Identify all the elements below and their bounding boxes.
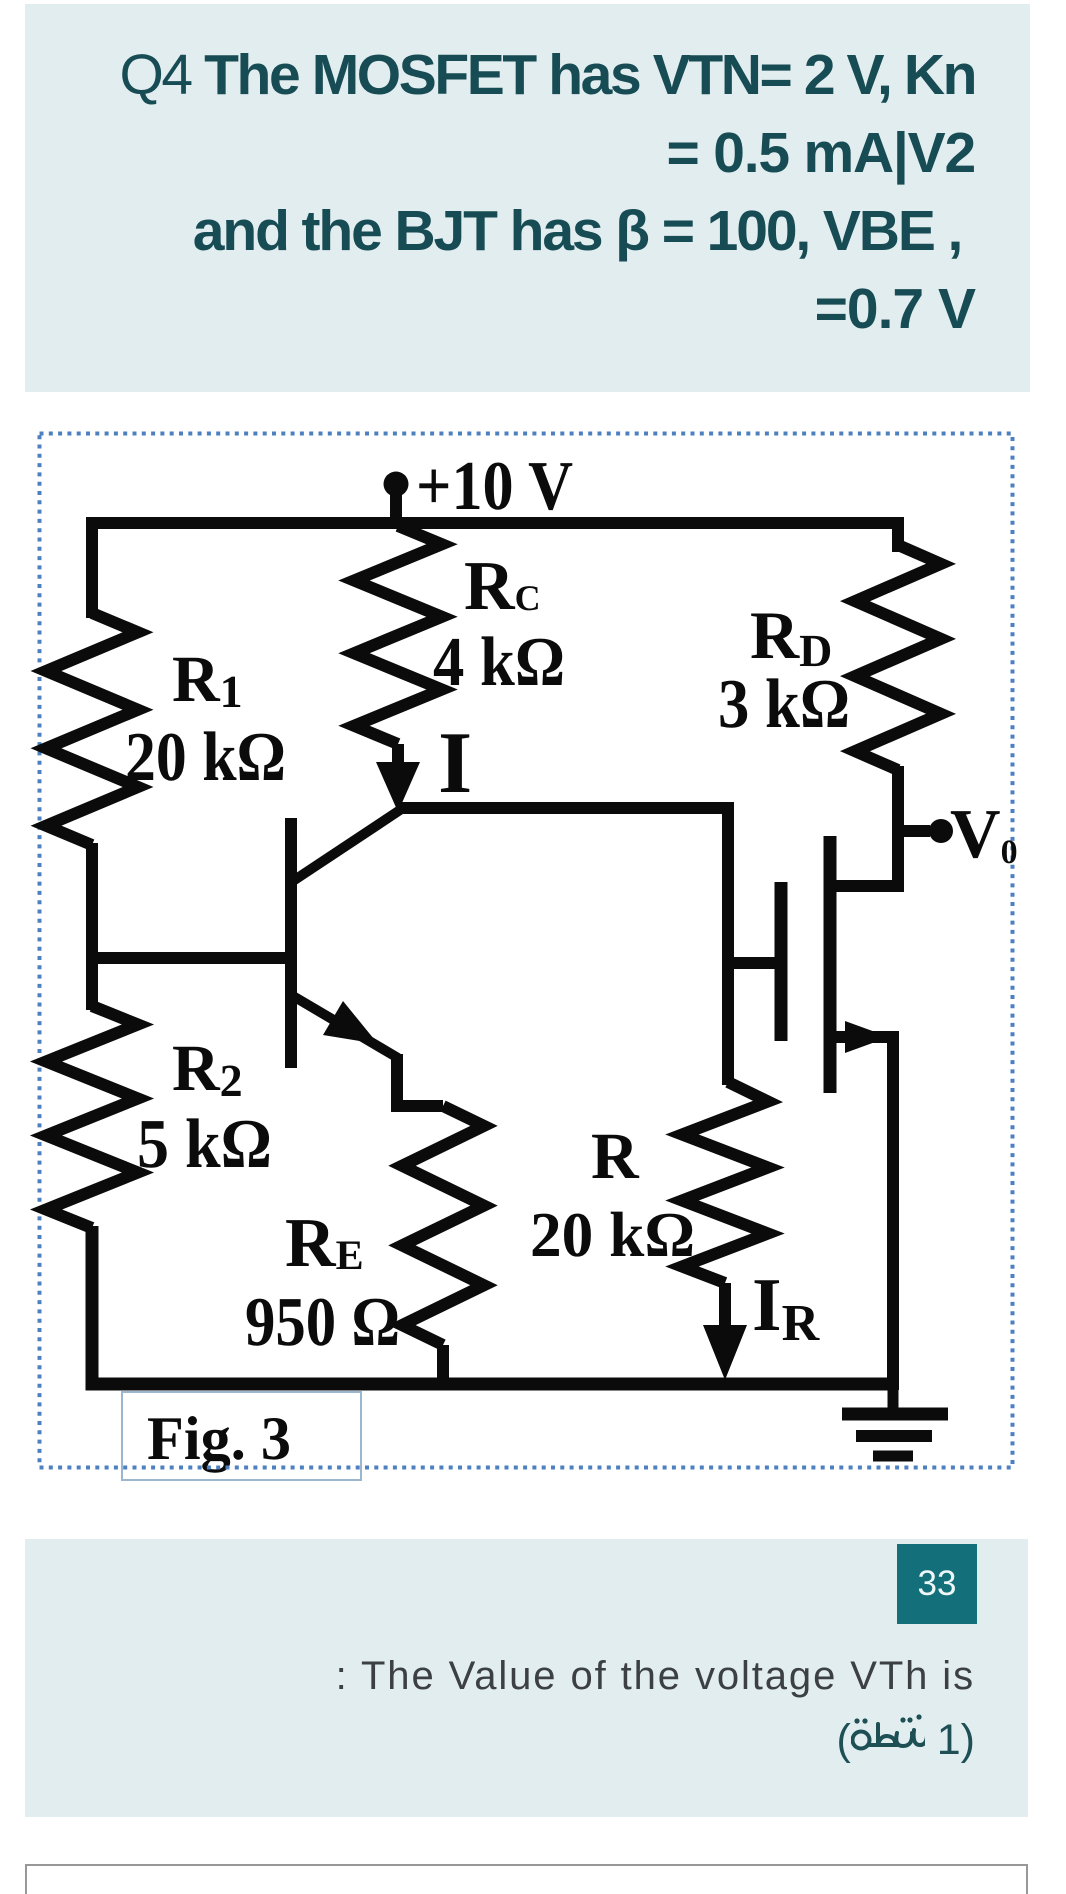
node +10 V supply stub [390,484,402,523]
svg-text:RE: RE [285,1205,364,1282]
answer section [25,1539,1028,1817]
svg-text:20 kΩ: 20 kΩ [125,719,286,796]
svg-text:R: R [591,1120,640,1193]
svg-text:RC: RC [464,548,541,625]
wire: gate connection [728,957,781,969]
arrow: IR into ground rail [703,1325,747,1380]
resistor RE [402,1106,484,1345]
svg-text:3 kΩ: 3 kΩ [718,666,850,743]
wire: Vo stub [898,825,930,837]
arrow: RC current I into collector node [376,762,420,812]
resistor RC [354,526,442,744]
transistor Q1 emitter tail to RE [397,1054,443,1106]
wire: IR arrow shaft [719,1283,731,1335]
wire: RD bottom to drain [892,766,904,892]
svg-text:5 kΩ: 5 kΩ [137,1106,272,1183]
wire: collector node horizontal + right vertical down to R [398,808,728,1085]
wire: top rail [92,523,898,618]
svg-text:+10 V: +10 V [416,448,573,525]
ground symbol [842,1384,948,1456]
resistor R [682,1082,768,1283]
answer input box [25,1864,1028,1894]
mosfet M1 gate bar [775,882,788,1041]
transistor Q1 emitter arrowhead [323,1001,378,1044]
resistor R1 [46,613,138,845]
svg-text:20 kΩ: 20 kΩ [530,1199,695,1270]
transistor Q1 collector diagonal [293,810,400,881]
transistor Q1 BJT body [291,810,400,1068]
svg-text:R2: R2 [172,1032,243,1106]
wire: base wire [92,952,286,964]
svg-text:V0: V0 [950,796,1018,873]
wire: RE bottom tail [437,1345,449,1390]
header question text [25,4,1030,392]
svg-text:R1: R1 [172,643,243,717]
svg-text:I: I [438,715,472,812]
wire: left rail lower + bottom rail [92,1226,893,1384]
resistor RD [855,545,941,770]
Fig. 3 label box [122,1392,361,1480]
node Vo dot [929,819,953,843]
svg-text:4 kΩ: 4 kΩ [433,624,565,701]
svg-text:950 Ω: 950 Ω [245,1284,400,1361]
svg-text:RD: RD [750,597,832,676]
node +10 V dot [384,472,409,497]
wire: left rail upper [86,843,98,1010]
mosfet M1 drain horizontal [830,880,897,892]
mosfet M1 source horizontal + source vertical to ground rail [830,1037,893,1390]
mosfet M1 source arrowhead [845,1021,889,1053]
svg-text:IR: IR [752,1263,821,1352]
wire: RC to collector arrow shaft [392,744,404,775]
svg-text:Fig. 3: Fig. 3 [147,1405,291,1473]
transistor Q1 emitter diagonal [293,996,398,1058]
mosfet M1 channel bar [824,836,837,1093]
dashed figure border [40,434,1013,1468]
resistor R2 [46,1006,138,1228]
transistor Q1 base bar [285,818,297,1068]
